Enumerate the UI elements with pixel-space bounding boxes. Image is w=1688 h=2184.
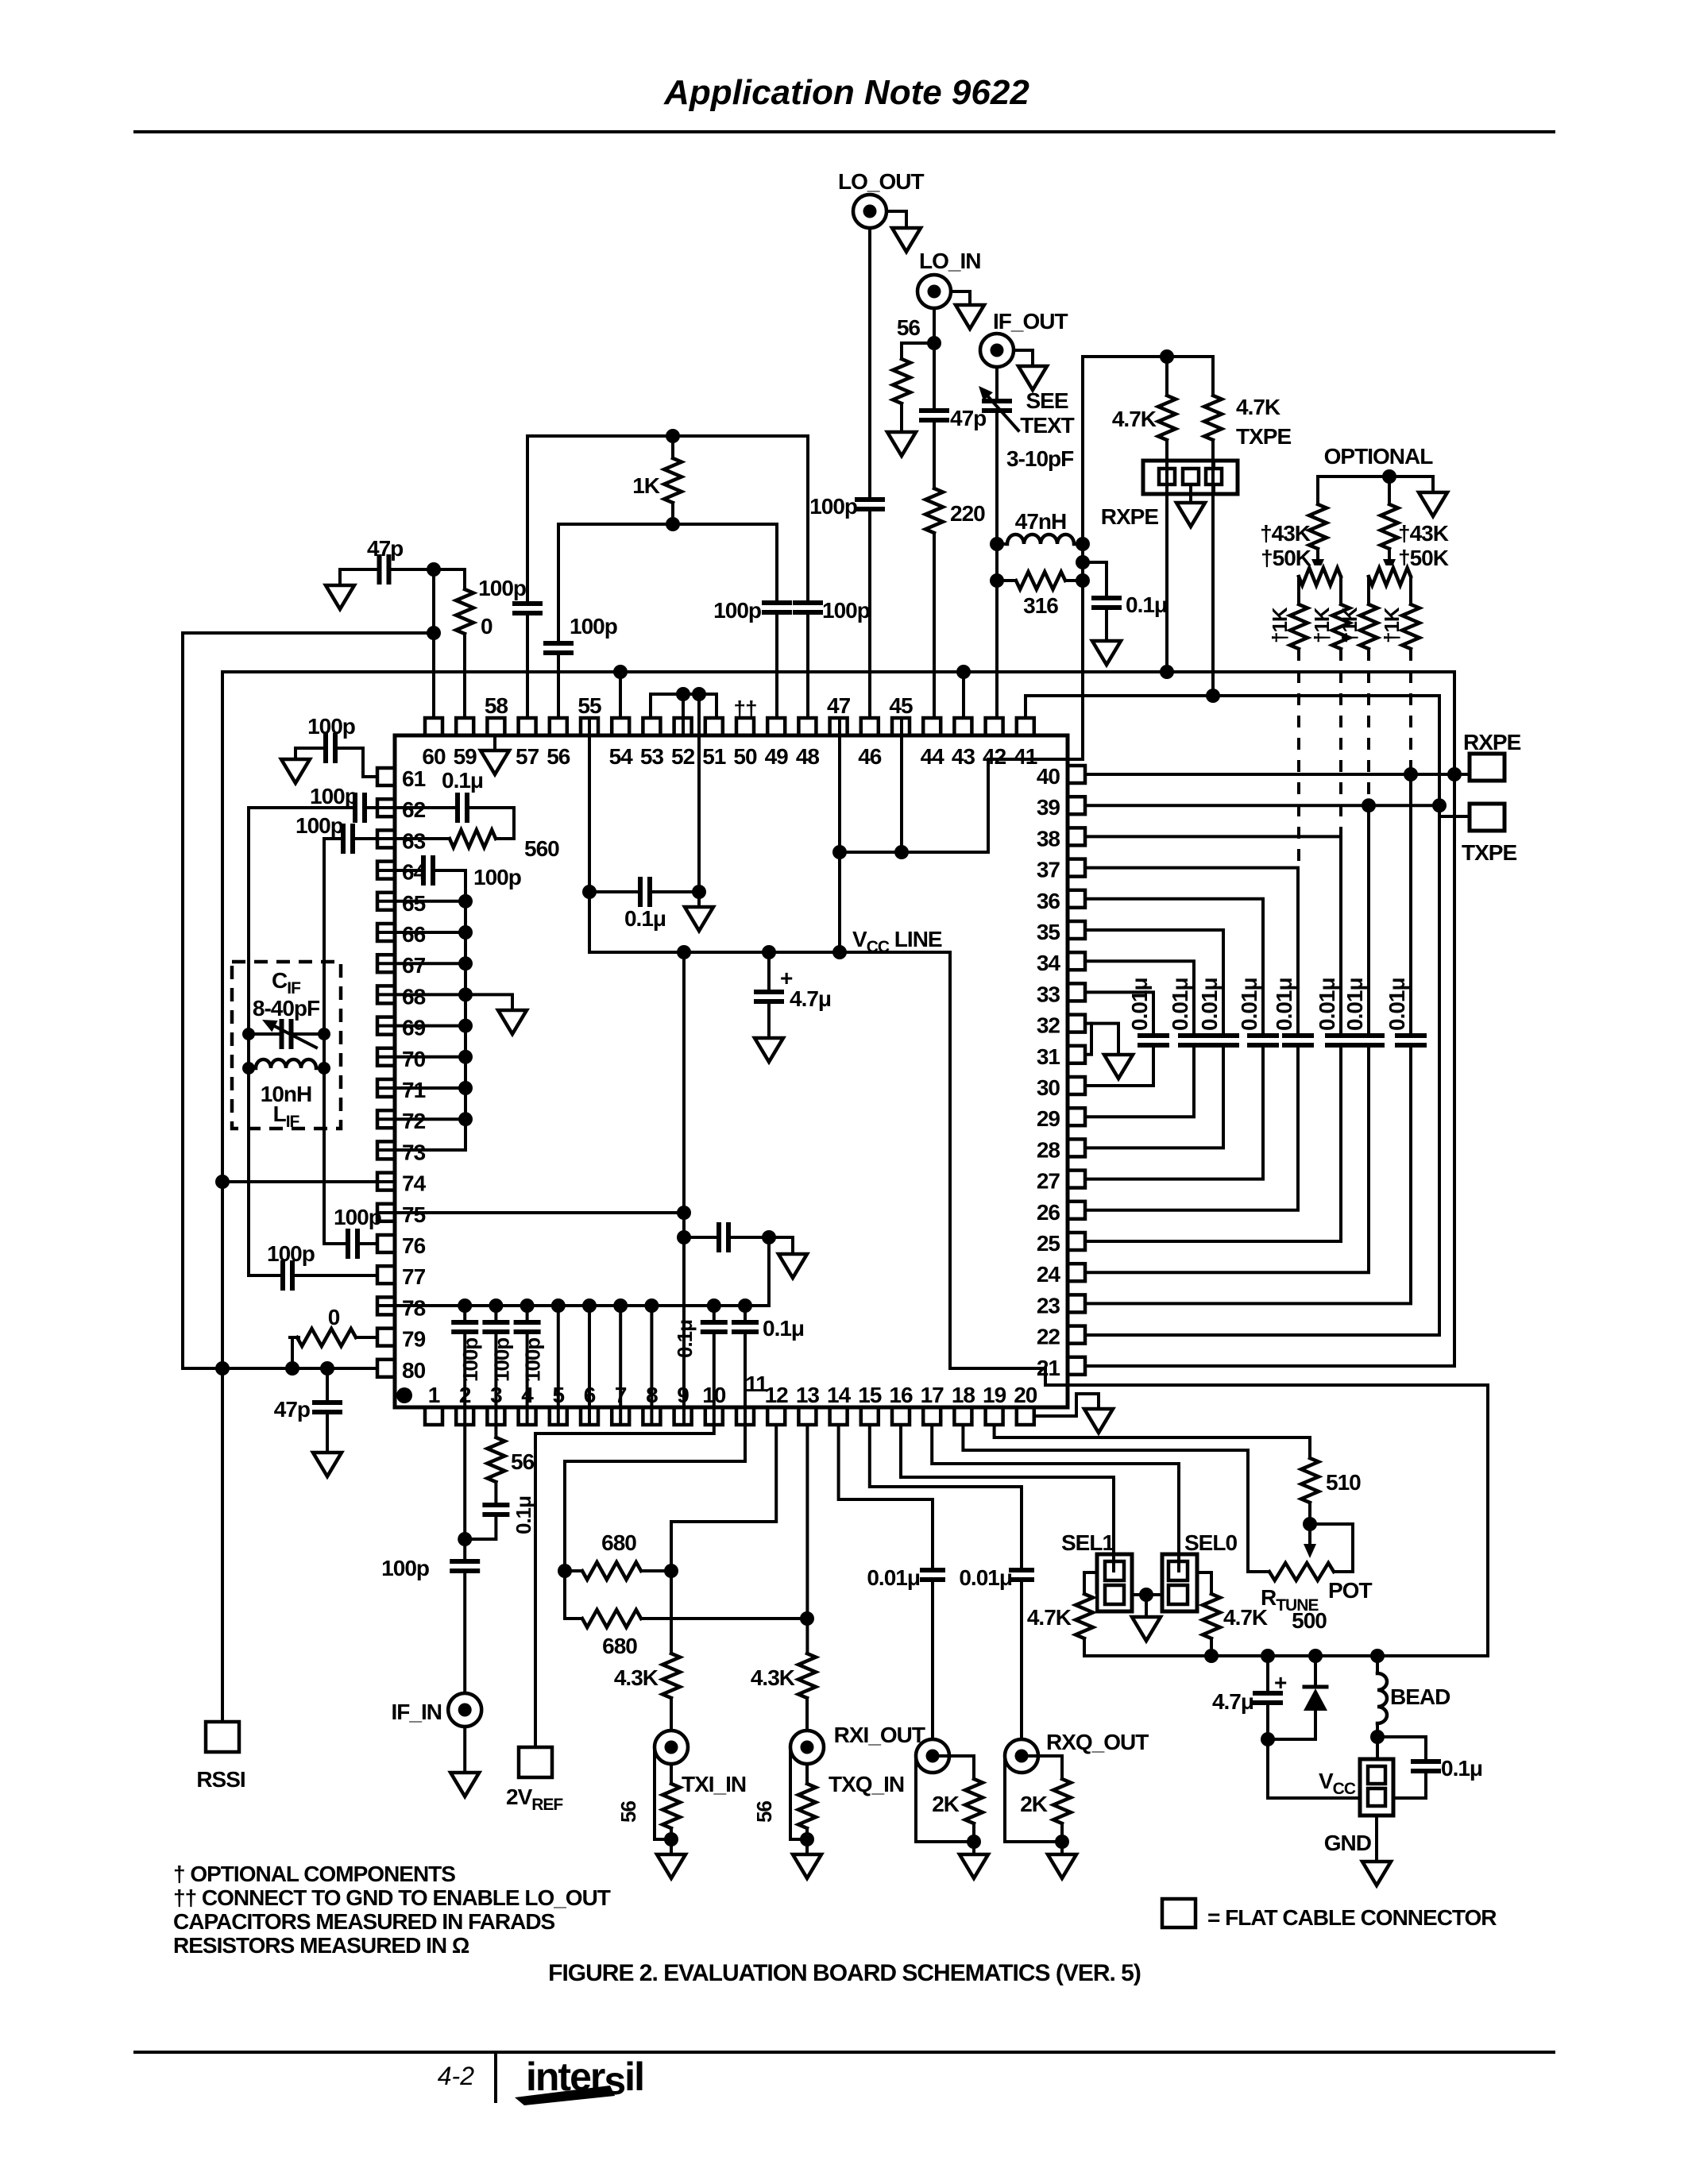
- svg-text:8-40pF: 8-40pF: [253, 996, 320, 1021]
- flat cable connector 3-pin (RXPE/GND/TXPE): [1143, 461, 1238, 494]
- resistor 4.7K RXPE pullup: [1165, 357, 1168, 396]
- svg-text:4.7K: 4.7K: [1027, 1605, 1072, 1630]
- svg-text:32: 32: [1037, 1013, 1060, 1038]
- capacitor 100p (pin 63): [324, 837, 377, 840]
- wire TXQ bypass: [790, 1749, 807, 1839]
- RXQ_OUT connector: [1005, 1739, 1038, 1773]
- ground RXQ: [1048, 1854, 1076, 1878]
- resistor 680 upper: [565, 1569, 671, 1572]
- svg-text:100p: 100p: [307, 714, 355, 739]
- 2VREF connector pad: [519, 1747, 552, 1777]
- svg-text:29: 29: [1037, 1106, 1060, 1131]
- svg-text:36: 36: [1037, 889, 1060, 913]
- svg-text:24: 24: [1037, 1262, 1061, 1287]
- capacitor 100p (pin 57 column): [526, 436, 529, 718]
- LO_IN connector: [917, 275, 951, 308]
- svg-text:100p: 100p: [334, 1205, 381, 1229]
- wire pin 18 to pot left end: [963, 1425, 1269, 1572]
- resistor 1K: [671, 436, 674, 458]
- pot RTUNE 500: [1269, 1561, 1334, 1583]
- SEL1 flat cable connector: [1097, 1554, 1132, 1611]
- svg-text:19: 19: [983, 1383, 1006, 1407]
- wire pin 19 to 510: [995, 1425, 1310, 1458]
- ground at pins 31/32: [1091, 1024, 1118, 1055]
- pot 50K optional right: [1388, 549, 1391, 559]
- wire dagger net into IC: [697, 694, 701, 892]
- inductor 47nH: [997, 542, 1083, 546]
- svg-text:100p: 100p: [478, 576, 526, 600]
- ground between SEL connectors: [1132, 1593, 1162, 1596]
- svg-text:0.01μ: 0.01μ: [1385, 978, 1409, 1031]
- capacitor 0.1u (VCC riser): [1083, 562, 1107, 641]
- resistor 560 (pin 63 interior): [380, 837, 514, 840]
- svg-text:POT: POT: [1328, 1578, 1372, 1603]
- svg-text:20: 20: [1014, 1383, 1037, 1407]
- resistor 56 (pin 3): [494, 1425, 497, 1437]
- svg-text:4.7K: 4.7K: [1236, 395, 1280, 419]
- wire pin 60 column: [432, 569, 435, 718]
- svg-text:LO_OUT: LO_OUT: [838, 169, 924, 194]
- capacitor 100p (pin 48 column): [806, 436, 809, 718]
- wire pin 43 stub: [962, 672, 965, 718]
- IF_OUT connector: [980, 334, 1014, 367]
- title rule: [135, 130, 1554, 133]
- wire pins 32/31 bracket: [1085, 1024, 1091, 1055]
- svg-text:†1K: †1K: [1380, 607, 1404, 643]
- svg-text:RSSI: RSSI: [196, 1767, 245, 1792]
- wiper arrow to RTUNE pot: [1308, 1524, 1311, 1544]
- interior bus pins 64-73: [380, 870, 465, 1150]
- svg-text:0.1μ: 0.1μ: [1126, 592, 1167, 617]
- svg-text:4.7μ: 4.7μ: [790, 986, 831, 1011]
- ground at pin 58 (inside): [493, 735, 496, 751]
- capacitor 100p (LO_OUT to pin 46): [868, 228, 871, 718]
- capacitor 100p (pin 3 interior): [494, 1306, 497, 1422]
- wire 47p to pin 60/59 nodes: [434, 569, 465, 589]
- ground tab LO_IN: [951, 291, 970, 305]
- wire left column x=313 (pin62 to pin77): [247, 808, 250, 1275]
- ground at pin 68 bus: [465, 994, 512, 1010]
- wire pin 74: [222, 1180, 395, 1183]
- svg-text:TXPE: TXPE: [1462, 840, 1516, 865]
- ground at 0.1u: [1092, 641, 1121, 665]
- wire BEAD to VCC connector: [1376, 1737, 1379, 1759]
- resistor 0 ohm (pin 59): [454, 589, 476, 634]
- svg-text:1: 1: [428, 1383, 440, 1407]
- svg-text:††: ††: [733, 696, 756, 721]
- svg-text:500: 500: [1292, 1608, 1327, 1633]
- svg-text:67: 67: [402, 953, 426, 978]
- svg-text:IF_OUT: IF_OUT: [993, 309, 1068, 334]
- svg-text:0.01μ: 0.01μ: [1237, 978, 1261, 1031]
- wire pin 10 to 2VREF: [535, 1425, 714, 1747]
- ground at 47p: [338, 569, 342, 585]
- svg-text:30: 30: [1037, 1075, 1060, 1100]
- capacitor 4.7u electrolytic (VCC): [1266, 1656, 1269, 1739]
- capacitor 100p (IF_IN): [450, 1559, 479, 1573]
- capacitor 0.01u (RXQ): [1010, 1568, 1033, 1582]
- node A junction: [427, 562, 441, 577]
- resistor 56 (TXQ): [805, 1764, 809, 1784]
- svg-text:IF_IN: IF_IN: [392, 1700, 442, 1724]
- capacitor 100p (pin 64 interior): [380, 869, 465, 872]
- svg-text:27: 27: [1037, 1169, 1060, 1194]
- svg-text:0.01μ: 0.01μ: [867, 1565, 920, 1590]
- capacitor 0.1u (pin 3): [465, 1482, 496, 1539]
- wire pin 80 / RSSI row: [183, 1367, 377, 1370]
- wire pin 54 stub: [619, 672, 622, 718]
- svg-text:0.01μ: 0.01μ: [959, 1565, 1012, 1590]
- svg-text:33: 33: [1037, 982, 1060, 1006]
- svg-text:0.01μ: 0.01μ: [1197, 978, 1222, 1031]
- TXI_IN connector: [655, 1731, 688, 1764]
- svg-text:0.1μ: 0.1μ: [442, 768, 483, 793]
- svg-text:0: 0: [481, 614, 492, 639]
- resistor 2K (RXQ): [1022, 1756, 1062, 1779]
- dashed box optional IF tank: [232, 962, 341, 1129]
- ground at 4.7u: [755, 1038, 783, 1062]
- resistor 4.7K (SEL0): [1197, 1572, 1211, 1594]
- svg-text:0.1μ: 0.1μ: [763, 1316, 804, 1341]
- ground TXI: [657, 1854, 686, 1878]
- svg-text:59: 59: [454, 744, 477, 769]
- svg-text:70: 70: [402, 1047, 426, 1071]
- VCC bottom rail: [1084, 1654, 1488, 1657]
- wire VCC riser x=1363: [1081, 357, 1084, 759]
- capacitor 0.1u (VCC): [1377, 1737, 1426, 1798]
- svg-text:LO_IN: LO_IN: [919, 249, 980, 273]
- svg-text:47: 47: [827, 693, 851, 718]
- capacitor 4.7u electrolytic (VCC line): [767, 952, 771, 1038]
- svg-text:1K: 1K: [632, 473, 660, 498]
- svg-text:100p: 100p: [713, 598, 761, 623]
- svg-text:† OPTIONAL COMPONENTS: † OPTIONAL COMPONENTS: [173, 1862, 455, 1886]
- svg-text:GND: GND: [1324, 1831, 1372, 1855]
- SEL0 flat cable connector: [1162, 1554, 1197, 1611]
- svg-text:RXI_OUT: RXI_OUT: [834, 1723, 925, 1747]
- wire VCC top link y=449: [1083, 355, 1213, 358]
- svg-text:56: 56: [752, 1801, 776, 1823]
- svg-text:68: 68: [402, 984, 426, 1009]
- svg-text:†1K: †1K: [1268, 607, 1292, 643]
- svg-text:37: 37: [1037, 858, 1060, 882]
- resistor 0 ohm (pin 79): [291, 1337, 294, 1368]
- svg-text:TXI_IN: TXI_IN: [682, 1772, 746, 1796]
- resistor 680 lower: [565, 1617, 807, 1620]
- svg-text:CAPACITORS MEASURED IN FARADS: CAPACITORS MEASURED IN FARADS: [173, 1909, 555, 1934]
- ground at connector middle pin: [1189, 484, 1192, 503]
- wire pin 39 to TXPE column: [1085, 804, 1439, 807]
- svg-text:51: 51: [702, 744, 726, 769]
- svg-text:100p: 100p: [489, 1338, 513, 1382]
- svg-text:56: 56: [616, 1801, 640, 1823]
- svg-text:79: 79: [402, 1327, 426, 1352]
- capacitor 47p (pin 80 net): [326, 1368, 329, 1453]
- svg-text:SEE: SEE: [1026, 388, 1068, 413]
- svg-text:2K: 2K: [1020, 1792, 1048, 1816]
- svg-text:220: 220: [950, 501, 985, 526]
- wire pin 2 column: [463, 1425, 466, 1693]
- trimmer capacitor C_IF 8-40pF: [249, 1032, 324, 1036]
- svg-text:48: 48: [796, 744, 820, 769]
- resistor 510: [1299, 1458, 1321, 1503]
- RXI_OUT connector: [916, 1739, 949, 1773]
- svg-text:OPTIONAL: OPTIONAL: [1324, 444, 1434, 469]
- resistor 316: [997, 579, 1083, 582]
- capacitor 100p (pin 76): [324, 1242, 377, 1245]
- svg-text:49: 49: [765, 744, 789, 769]
- svg-text:0.1μ: 0.1μ: [624, 906, 666, 931]
- svg-text:100p: 100p: [295, 813, 343, 838]
- wire TXI bypass: [655, 1749, 671, 1839]
- VCC flat cable connector: [1360, 1759, 1393, 1815]
- ground TXQ: [793, 1854, 821, 1878]
- capacitor 0.1u (pin 11 interior): [744, 1306, 747, 1422]
- wire pin 13 column (TXQ): [805, 1425, 809, 1653]
- capacitor 100p (pin 49 column): [775, 524, 778, 718]
- wire pin 14 to RXI: [839, 1425, 933, 1739]
- svg-text:52: 52: [671, 744, 695, 769]
- svg-text:4.3K: 4.3K: [751, 1665, 795, 1690]
- capacitor 47p (pin 60 net): [340, 568, 434, 571]
- svg-text:RESISTORS MEASURED IN Ω: RESISTORS MEASURED IN Ω: [173, 1933, 469, 1958]
- svg-text:†43K: †43K: [1260, 521, 1311, 546]
- pin 1 index dot: [396, 1387, 412, 1403]
- svg-text:RXPE: RXPE: [1101, 504, 1159, 529]
- wire pin 55 column: [588, 721, 591, 952]
- svg-text:†1K: †1K: [1310, 607, 1334, 643]
- svg-text:FIGURE 2. EVALUATION BOARD SC: FIGURE 2. EVALUATION BOARD SCHEMATICS (V…: [548, 1960, 1141, 1986]
- wire pin 21 to rail column: [1085, 1364, 1454, 1368]
- wires pins 33-38 to 0.01u caps: [1085, 992, 1153, 1086]
- svg-text:56: 56: [511, 1449, 535, 1474]
- wire optional top: [1318, 475, 1433, 478]
- svg-text:28: 28: [1037, 1137, 1060, 1162]
- resistor 1K optional right-a: [1358, 604, 1380, 649]
- svg-text:100p: 100p: [458, 1338, 482, 1382]
- wire TXPE column to rail: [1211, 440, 1215, 696]
- svg-text:3-10pF: 3-10pF: [1006, 446, 1074, 471]
- wire RSSI net left: [183, 633, 434, 1368]
- resistor 56 (LO_IN): [902, 343, 934, 359]
- svg-text:42: 42: [983, 744, 1006, 769]
- wire pin45/47 to VCC riser: [840, 759, 1083, 852]
- resistor 4.7K TXPE pullup: [1211, 357, 1215, 396]
- svg-text:RXQ_OUT: RXQ_OUT: [1046, 1730, 1149, 1754]
- resistor 2K (RXI): [933, 1756, 974, 1779]
- svg-text:RXPE: RXPE: [1463, 730, 1521, 754]
- IC pin squares (1-80): [1017, 718, 1034, 735]
- wire pin 40 to RXPE column: [1085, 773, 1454, 776]
- svg-text:316: 316: [1023, 593, 1058, 618]
- svg-text:0.01μ: 0.01μ: [1127, 978, 1152, 1031]
- wire RXQ bypass: [1005, 1758, 1062, 1842]
- wire pin 17 to SEL0: [932, 1425, 1179, 1557]
- IF_IN connector: [448, 1693, 481, 1727]
- svg-text:0.1μ: 0.1μ: [673, 1320, 697, 1358]
- wire pin 41 / TXPE rail y=876: [1026, 696, 1439, 1335]
- VCC LINE rail: [589, 952, 1488, 1656]
- svg-text:34: 34: [1037, 951, 1061, 975]
- ground below IF_IN: [463, 1727, 466, 1773]
- svg-text:56: 56: [547, 744, 570, 769]
- svg-text:0.01μ: 0.01μ: [1168, 978, 1192, 1031]
- wire pin 15 to RXQ: [870, 1425, 1022, 1739]
- wire pin 22 to TXPE column: [1085, 1333, 1439, 1337]
- svg-text:54: 54: [609, 744, 634, 769]
- wire pin 12 jog to TXI chain: [671, 1425, 776, 1571]
- svg-text:0.1μ: 0.1μ: [1441, 1756, 1482, 1781]
- decoupling capacitors 0.01u x8: [1138, 1033, 1168, 1048]
- svg-text:13: 13: [796, 1383, 820, 1407]
- resistor 43K optional left: [1316, 477, 1319, 504]
- TXPE output pad: [1439, 815, 1470, 818]
- wire RXI bypass: [916, 1758, 974, 1842]
- svg-text:60: 60: [422, 744, 446, 769]
- svg-text:2K: 2K: [932, 1792, 960, 1816]
- LO_OUT connector: [853, 195, 886, 228]
- capacitor 100p (pin 4 interior): [526, 1306, 529, 1422]
- wire diode/cap to VCC connector: [1268, 1739, 1360, 1798]
- svg-text:100p: 100p: [381, 1556, 429, 1580]
- svg-text:47nH: 47nH: [1015, 509, 1066, 534]
- inductor BEAD: [1376, 1656, 1379, 1673]
- svg-text:41: 41: [1014, 744, 1037, 769]
- TXQ_IN connector: [790, 1731, 824, 1764]
- svg-text:77: 77: [402, 1264, 426, 1289]
- svg-text:100p: 100p: [570, 614, 617, 639]
- svg-text:100p: 100p: [310, 784, 357, 808]
- capacitor 100p (pin 77): [249, 1274, 377, 1277]
- ground tab IF_OUT: [1014, 350, 1033, 366]
- svg-text:73: 73: [402, 1140, 426, 1164]
- svg-text:39: 39: [1037, 795, 1060, 820]
- long rail y=846 (pins 74/54/43/21, RXPE net): [222, 672, 1454, 1366]
- svg-text:56: 56: [897, 315, 921, 340]
- capacitor 47p (LO_IN column): [933, 308, 936, 718]
- wire rail left drop x=280: [221, 672, 224, 1368]
- inductor L_IF 10nH: [256, 1056, 316, 1080]
- svg-text:71: 71: [402, 1078, 426, 1102]
- ground at optional: [1431, 477, 1435, 492]
- capacitor 100p (pin 2 interior): [463, 1306, 466, 1422]
- svg-text:15: 15: [858, 1383, 882, 1407]
- svg-text:76: 76: [402, 1233, 426, 1258]
- svg-text:74: 74: [402, 1171, 427, 1196]
- wires pins 5-8 to rail: [557, 1306, 560, 1422]
- resistor 1K optional left-b: [1330, 604, 1352, 649]
- svg-text:50: 50: [733, 744, 757, 769]
- resistor 4.3K (TXQ): [796, 1653, 818, 1698]
- capacitor 0.1u (pin 62 interior): [380, 808, 514, 839]
- capacitor 0.01u (RXI): [921, 1568, 944, 1582]
- wire RXPE column to rail: [1165, 440, 1168, 672]
- dashed optional links: [1297, 649, 1300, 868]
- resistor 4.3K (TXI): [670, 1571, 673, 1653]
- svg-text:55: 55: [577, 693, 601, 718]
- svg-text:62: 62: [402, 797, 426, 822]
- wire right column x=408 (pin63 to pin76): [323, 839, 326, 1244]
- svg-text:100p: 100p: [267, 1241, 315, 1266]
- svg-text:0.01μ: 0.01μ: [1272, 978, 1296, 1031]
- wire upper link y=549 (pins 57/48): [527, 434, 808, 438]
- resistor 1K optional left-a: [1288, 604, 1310, 649]
- RSSI connector pad: [221, 1368, 224, 1722]
- svg-text:31: 31: [1037, 1044, 1060, 1069]
- svg-text:= FLAT CABLE CONNECTOR: = FLAT CABLE CONNECTOR: [1207, 1905, 1497, 1930]
- svg-text:560: 560: [524, 836, 559, 861]
- ground at 56: [900, 403, 903, 432]
- svg-text:10nH: 10nH: [261, 1082, 311, 1106]
- svg-text:35: 35: [1037, 920, 1060, 944]
- footer rule: [135, 2051, 1554, 2054]
- svg-text:+: +: [1274, 1670, 1287, 1695]
- svg-text:0.1μ: 0.1μ: [512, 1496, 535, 1534]
- svg-text:100p: 100p: [809, 494, 857, 519]
- capacitor 0.1u (pin 75 net): [684, 1236, 769, 1239]
- wire pin 16 to SEL1: [901, 1425, 1114, 1557]
- svg-text:16: 16: [889, 1383, 913, 1407]
- svg-text:100p: 100p: [521, 1338, 545, 1382]
- svg-text:4.3K: 4.3K: [614, 1665, 659, 1690]
- pot 50K optional left: [1316, 549, 1319, 559]
- svg-text:14: 14: [827, 1383, 852, 1407]
- node junction pin60/RSSI: [427, 626, 441, 640]
- capacitor 100p (pin 62): [249, 806, 377, 809]
- wire VCC connector to GND: [1375, 1815, 1378, 1862]
- svg-text:44: 44: [921, 744, 945, 769]
- svg-text:†43K: †43K: [1398, 521, 1449, 546]
- svg-text:57: 57: [516, 744, 539, 769]
- flat cable legend square: [1162, 1899, 1196, 1927]
- svg-text:Application Note 9622: Application Note 9622: [663, 73, 1029, 112]
- IC body outline (80-pin QFP): [395, 735, 1068, 1407]
- diode (VCC clamp): [1314, 1656, 1317, 1687]
- svg-text:45: 45: [889, 693, 913, 718]
- svg-text:47p: 47p: [367, 536, 403, 561]
- svg-text:22: 22: [1037, 1325, 1060, 1349]
- svg-text:12: 12: [765, 1383, 789, 1407]
- RXPE output pad: [1454, 773, 1470, 776]
- svg-text:100p: 100p: [822, 598, 870, 623]
- junction pin43-rail: [956, 665, 971, 679]
- capacitor 0.1u (pin 55 to dagger net): [589, 890, 699, 893]
- svg-text:100p: 100p: [473, 865, 521, 889]
- svg-text:26: 26: [1037, 1200, 1060, 1225]
- svg-text:0.01μ: 0.01μ: [1342, 978, 1367, 1031]
- resistor 220 (to pin 44): [923, 488, 945, 533]
- svg-text:78: 78: [402, 1295, 426, 1320]
- svg-text:47p: 47p: [274, 1397, 310, 1422]
- svg-text:†1K: †1K: [1338, 607, 1362, 643]
- svg-text:†† CONNECT TO GND TO ENABLE L: †† CONNECT TO GND TO ENABLE LO_OUT: [173, 1885, 611, 1910]
- ground at 47p bottom: [313, 1453, 342, 1476]
- wire 0.1u to bottom rail: [767, 1237, 771, 1306]
- svg-text:47p: 47p: [950, 406, 986, 430]
- resistor 56 (TXI): [670, 1764, 673, 1784]
- svg-text:17: 17: [921, 1383, 944, 1407]
- trimmer capacitor 3-10pF SEE TEXT: [995, 367, 999, 718]
- svg-text:40: 40: [1037, 764, 1060, 789]
- wire upper link y=660 (pins 56/49): [558, 523, 777, 526]
- ground at dagger net: [697, 892, 701, 907]
- wire dagger bracket (pins 53,52,51): [651, 694, 717, 718]
- capacitor 0.1u (pin 10 interior): [713, 1306, 716, 1422]
- svg-text:4.7μ: 4.7μ: [1212, 1689, 1253, 1714]
- ground at pin75 0.1u: [769, 1237, 793, 1254]
- svg-text:TEXT: TEXT: [1020, 413, 1074, 438]
- ground at pin61 cap: [294, 748, 297, 759]
